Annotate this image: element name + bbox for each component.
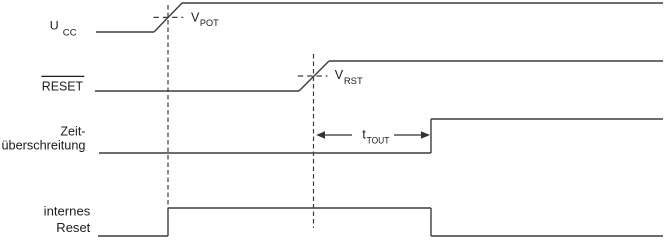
wire internes Reset falling edge [430, 208, 432, 236]
wire RESET rising ramp [299, 61, 329, 91]
wire Zeit-ueberschreitung rising edge [430, 119, 432, 153]
svg-text:t: t [362, 127, 366, 142]
svg-text:V: V [335, 68, 344, 82]
wire internes Reset high level [168, 207, 431, 209]
dashed threshold level V_RST [298, 75, 328, 77]
svg-text:POT: POT [200, 18, 219, 29]
dashed timing line 1 at V_POT crossing [167, 5, 169, 208]
svg-text:Zeit-: Zeit- [60, 124, 85, 138]
wire internes Reset rising edge [167, 208, 169, 236]
svg-text:Reset: Reset [56, 221, 91, 235]
t_TOUT dimension arrow right segment [394, 134, 428, 136]
dashed timing line 2 at V_RST crossing [313, 54, 315, 228]
wire RESET low level [95, 90, 299, 92]
svg-text:TOUT: TOUT [367, 135, 390, 146]
svg-text:RST: RST [344, 76, 363, 87]
wire Zeit-ueberschreitung low level [99, 152, 431, 154]
signal label RESET overline [41, 75, 84, 77]
wire Zeit-ueberschreitung high level [431, 118, 663, 120]
t_TOUT dimension arrow left segment [318, 134, 352, 136]
wire U_CC rising ramp [154, 3, 182, 32]
wire internes Reset low level left [98, 235, 168, 237]
wire RESET high level [329, 60, 663, 62]
svg-text:RESET: RESET [42, 80, 84, 94]
svg-text:CC: CC [63, 28, 77, 39]
svg-text:V: V [191, 10, 200, 24]
svg-text:internes: internes [44, 204, 91, 218]
t_TOUT left arrowhead [316, 131, 325, 139]
dashed threshold level V_POT [154, 16, 184, 18]
svg-text:überschreitung: überschreitung [2, 139, 86, 153]
wire internes Reset low level right [431, 235, 663, 237]
wire U_CC low level [96, 31, 154, 33]
t_TOUT right arrowhead [421, 131, 430, 139]
wire U_CC high level [182, 2, 663, 4]
svg-text:U: U [50, 19, 59, 33]
